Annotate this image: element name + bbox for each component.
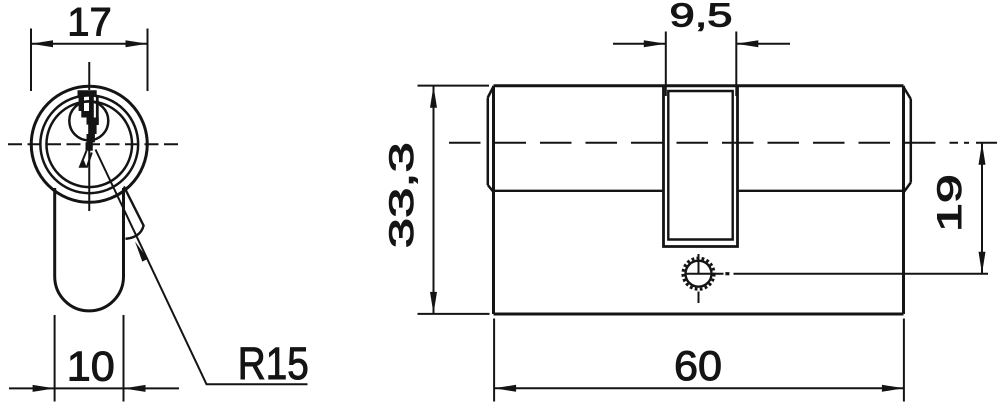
keyway profile (black silhouette)	[78, 90, 99, 151]
svg-text:33,3: 33,3	[383, 142, 421, 248]
svg-text:10: 10	[67, 342, 115, 389]
vertical centerline through body	[88, 143, 90, 211]
svg-text:19: 19	[931, 174, 969, 232]
front view body right side	[122, 188, 125, 277]
left end face	[487, 98, 490, 186]
keyway foot outline	[80, 151, 92, 167]
dimension 60 line	[494, 387, 904, 389]
horizontal centerline front view	[8, 143, 178, 145]
svg-text:R15: R15	[238, 338, 309, 389]
radius leader R15	[96, 150, 308, 385]
front view middle circle	[40, 95, 138, 193]
right end chamfer top	[904, 87, 911, 99]
side view centerline end dash	[976, 142, 997, 144]
barrel-spine junction line right	[738, 190, 903, 192]
dimension 10 line	[9, 387, 179, 389]
right end chamfer bottom	[904, 183, 911, 193]
screw hole horizontal line	[686, 273, 724, 275]
front view outer circle	[31, 86, 147, 202]
left end chamfer bottom	[488, 185, 494, 192]
svg-text:60: 60	[674, 342, 722, 389]
dimension 17 line	[31, 43, 148, 45]
fixing screw hole inner circle	[686, 261, 712, 287]
keyway foot tip fill	[80, 160, 87, 167]
front view body bottom arc	[55, 277, 124, 311]
dimension 17 arrows	[31, 40, 148, 47]
dimension 60 extension lines	[493, 319, 495, 402]
side view left edge	[492, 86, 495, 314]
svg-text:17: 17	[67, 1, 112, 45]
vertical centerline above circle	[88, 62, 90, 90]
keyway circle	[69, 101, 108, 140]
dimension 10 arrows	[33, 385, 146, 392]
front view inner circle (plug)	[46, 102, 132, 188]
cam flag (rotated cam silhouette)	[124, 187, 144, 239]
dimension 19 arrows	[979, 143, 986, 274]
dimension 10 extension lines	[54, 315, 56, 402]
dimension 60 arrows	[494, 385, 904, 392]
dimension 33,3 line	[433, 86, 435, 314]
dot on screw line	[725, 272, 729, 275]
side view body bottom edge	[494, 313, 904, 316]
cam inner rectangle	[668, 91, 732, 240]
dimension 33,3 extension lines	[418, 85, 490, 87]
dimension 33,3 arrows	[430, 86, 437, 314]
dimension 9,5 line left	[613, 43, 666, 45]
dimension 9,5 extension lines	[665, 32, 667, 97]
side view centerline	[449, 142, 958, 144]
dimension 17 extension lines	[30, 29, 32, 92]
cam outer rectangle	[664, 87, 738, 247]
screw hole vertical centerline upper	[698, 254, 700, 275]
radius leader arrowhead	[135, 242, 148, 262]
svg-text:9,5: 9,5	[670, 0, 733, 34]
left end chamfer top	[488, 87, 494, 98]
side view centerline dot	[964, 142, 969, 144]
barrel-spine junction line left	[495, 190, 664, 192]
dimension 9,5 line right	[736, 43, 790, 45]
side view right edge	[902, 86, 905, 314]
side view barrel top edge	[494, 84, 904, 87]
screw hole vertical centerline lower	[698, 292, 700, 304]
fixing screw thread circle (serrated)	[683, 258, 714, 289]
dimension 9,5 arrows	[644, 40, 759, 47]
right end face	[910, 99, 913, 183]
dimension 19 line	[981, 143, 983, 274]
screw line to 19 dim	[734, 273, 989, 275]
front view body left side	[53, 188, 56, 277]
